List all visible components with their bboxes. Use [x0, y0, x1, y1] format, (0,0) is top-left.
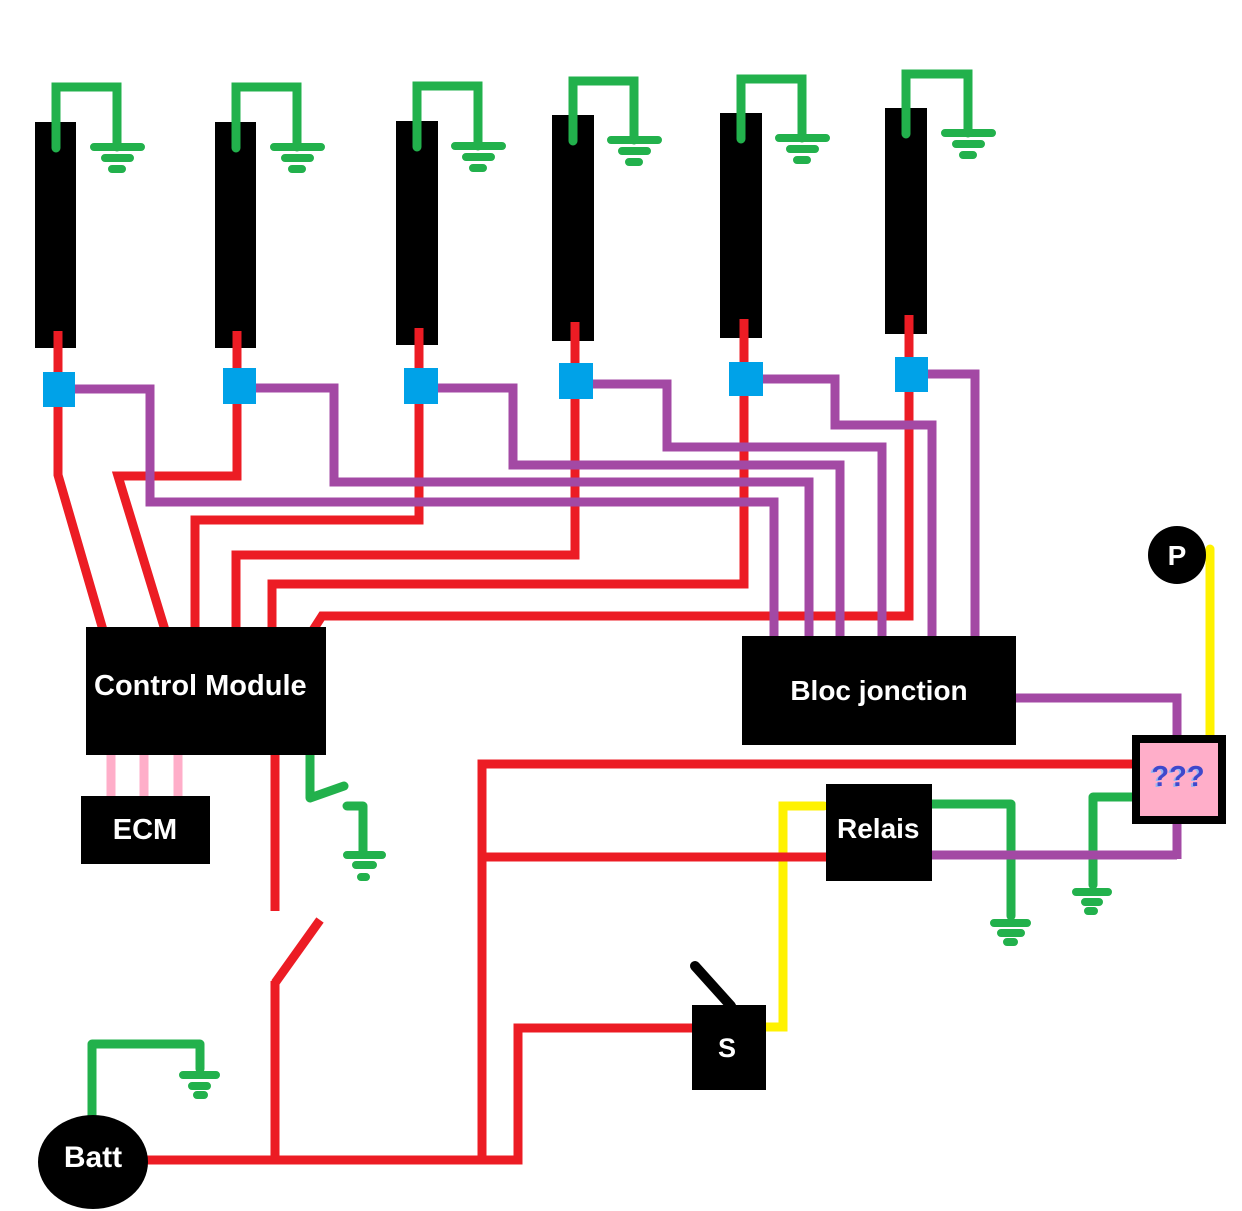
svg-text:Control Module: Control Module [94, 670, 307, 702]
svg-text:S: S [718, 1033, 736, 1063]
svg-text:???: ??? [1151, 761, 1204, 793]
svg-text:ECM: ECM [113, 814, 177, 846]
svg-text:Bloc jonction: Bloc jonction [790, 675, 967, 706]
svg-text:P: P [1168, 540, 1187, 571]
svg-text:Batt: Batt [64, 1141, 122, 1174]
svg-text:Relais: Relais [837, 813, 920, 844]
